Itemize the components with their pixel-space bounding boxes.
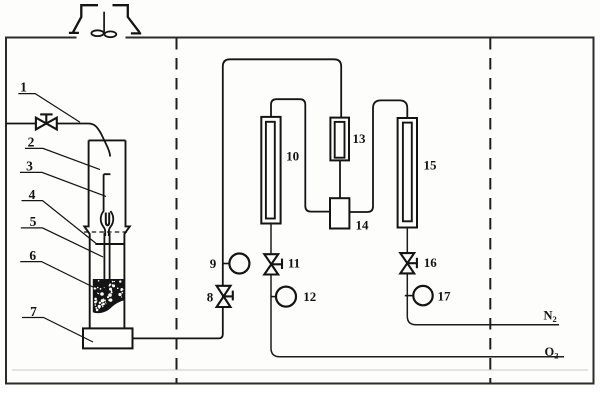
valve 8 xyxy=(217,286,233,307)
gauge 12 xyxy=(271,287,297,307)
svg-text:2: 2 xyxy=(28,135,35,150)
inlet pipe with elbow into vessel xyxy=(6,124,110,157)
pipe base to big loop to column 13 xyxy=(133,59,342,338)
column 10 xyxy=(261,117,280,224)
column 15 xyxy=(398,118,417,228)
svg-text:10: 10 xyxy=(286,148,299,163)
inlet hand valve xyxy=(36,114,57,129)
svg-text:1: 1 xyxy=(20,80,27,95)
svg-text:5: 5 xyxy=(30,214,37,229)
svg-text:3: 3 xyxy=(26,159,33,174)
ground joint dashed line xyxy=(84,231,130,233)
vessel 2 walls xyxy=(84,140,130,328)
svg-text:13: 13 xyxy=(353,131,367,146)
svg-text:8: 8 xyxy=(207,289,214,304)
pipe column13 to box14 xyxy=(339,161,341,199)
fan shaft xyxy=(103,12,105,34)
svg-text:9: 9 xyxy=(210,256,217,271)
column 13 xyxy=(330,118,349,161)
svg-text:15: 15 xyxy=(424,158,438,173)
packing 6 xyxy=(93,279,125,313)
base 7 xyxy=(83,328,133,348)
sample tube 3 with hook xyxy=(101,174,114,279)
valve 16 xyxy=(400,253,417,273)
label 2 leader xyxy=(25,148,100,169)
gauge 9 xyxy=(223,254,250,274)
gauge 17 xyxy=(405,286,433,305)
scan streak xyxy=(12,369,588,371)
svg-text:14: 14 xyxy=(356,218,370,233)
pipe box14 to column15 xyxy=(349,100,407,212)
exhaust fan hood left bracket xyxy=(69,5,98,33)
small loop pipe column10 to box14 xyxy=(271,99,330,211)
pipe below column15 to N2 line xyxy=(407,228,559,325)
label 4 leader xyxy=(22,201,97,244)
svg-text:6: 6 xyxy=(29,248,36,263)
pipe below column10 to O2 line xyxy=(271,224,564,357)
fan propeller xyxy=(91,30,116,37)
inner support line xyxy=(95,243,124,245)
label 7 leader xyxy=(22,318,93,343)
label 1 leader xyxy=(18,94,80,123)
box 14 xyxy=(330,198,349,228)
label 6 leader xyxy=(20,262,93,287)
svg-text:4: 4 xyxy=(29,187,36,202)
exhaust fan hood right bracket xyxy=(113,5,142,33)
label 3 leader xyxy=(20,172,106,196)
svg-text:17: 17 xyxy=(438,288,452,303)
svg-text:7: 7 xyxy=(30,304,37,319)
label 5 leader xyxy=(21,228,103,257)
svg-text:16: 16 xyxy=(424,255,438,270)
svg-text:12: 12 xyxy=(303,289,316,304)
svg-text:11: 11 xyxy=(288,255,300,270)
valve 11 xyxy=(264,254,282,274)
dashed partition right xyxy=(489,38,491,383)
dashed partition left xyxy=(176,38,178,383)
